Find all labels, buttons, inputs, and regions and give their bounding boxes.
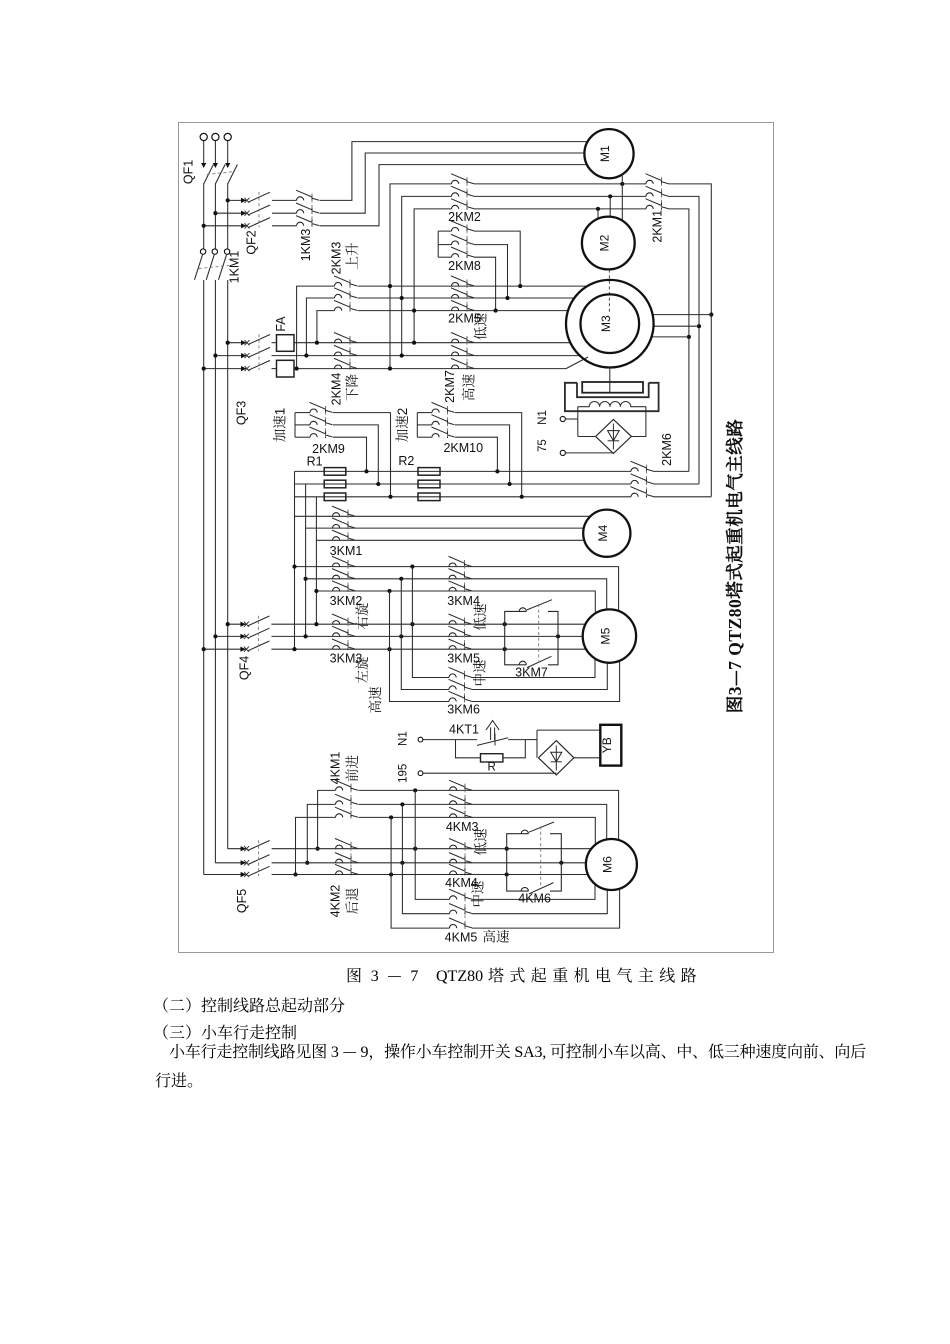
- rectifier bridge (brake): [538, 741, 574, 775]
- svg-text:QF1: QF1: [182, 160, 196, 184]
- wire vertical X3: [391, 817, 449, 928]
- terminal N1 (hoist): [560, 416, 565, 421]
- svg-text:75: 75: [537, 439, 549, 452]
- svg-text:中速: 中速: [467, 880, 487, 908]
- mechanical link M2-M3 (dashed): [608, 270, 610, 312]
- svg-text:2KM8: 2KM8: [448, 259, 481, 273]
- contactor 3KM3: [333, 621, 340, 625]
- rotor outer bracket: [565, 383, 659, 411]
- motor M4: [583, 510, 630, 557]
- wire bus L3 upper: [227, 141, 229, 163]
- wire 2KM8 out3 drop: [474, 257, 496, 310]
- wire 3KM2 row3 to 3KM4 to M5 top: [316, 591, 595, 613]
- contactor 4KM2: [336, 845, 343, 849]
- wire riser to 4KM1 row1: [318, 790, 336, 848]
- wire QF4 row2 through 3KM3/3KM5 to M5: [271, 635, 582, 637]
- wire 2KM10 out3 to R row1: [455, 437, 497, 471]
- svg-text:N1: N1: [397, 731, 409, 746]
- wire rectifier right to YB: [574, 757, 600, 759]
- wire QF5 row1 through 4KM2/4KM4 to M6: [272, 848, 592, 850]
- svg-text:加速1: 加速1: [269, 408, 289, 443]
- time relay contact 4KT1: [477, 738, 508, 746]
- wire 2KM3 input riser row2: [306, 298, 334, 356]
- wire QF5 row2 through 4KM2/4KM4 to M6: [272, 862, 586, 864]
- wire 2KM1 row3 to right riser 1: [669, 209, 689, 472]
- contactor 2KM4: [335, 339, 342, 343]
- wire M3 tap row1: [653, 314, 712, 316]
- wire bus L2 mid: [214, 185, 216, 249]
- rectifier diode symbol: [612, 424, 614, 450]
- wire 4KM1 row1 through 4KM3 to M6 top: [359, 790, 619, 840]
- rectifier bridge (hoist eddy brake): [596, 419, 632, 453]
- wire 2KM8 out1 drop: [474, 231, 520, 286]
- motor M3 outer: [566, 280, 654, 368]
- wire 3KM1 row1 to M4: [295, 515, 591, 517]
- svg-text:M5: M5: [598, 627, 612, 644]
- wire bus L2 bend to QF5 row2: [215, 862, 245, 864]
- terminal 195: [418, 771, 423, 776]
- svg-text:195: 195: [397, 764, 409, 783]
- wire vertical W2: [401, 579, 449, 690]
- svg-text:R: R: [488, 762, 496, 774]
- supply terminal circle L2: [212, 133, 219, 140]
- rotor inner rect: [582, 382, 643, 393]
- svg-text:2KM1: 2KM1: [651, 210, 665, 243]
- contactor 2KM8: [452, 227, 459, 231]
- body text line 1: [153, 993, 345, 1016]
- contactor 2KM8 input bracket: [437, 231, 439, 257]
- wire tap bus L1 to QF2 row3: [204, 225, 246, 227]
- rectifier diode symbol (brake): [555, 746, 557, 771]
- supply terminal circle L1: [200, 133, 207, 140]
- wire 2KM1 row2 to right riser 2: [669, 196, 700, 484]
- contactor 3KM1: [333, 513, 340, 517]
- svg-text:下降: 下降: [341, 374, 361, 401]
- contactor 2KM5: [452, 283, 459, 287]
- wire tap bus L2 to QF3 row2: [215, 355, 246, 357]
- contactor 1KM1: [200, 249, 205, 254]
- wire tap bus L3 to QF3 row1: [228, 342, 246, 344]
- svg-text:R2: R2: [398, 454, 414, 468]
- wire 1KM3 row2 to M1 phase V: [320, 153, 585, 213]
- wire 2KM3 row1 to 2KM5 to M3: [358, 285, 588, 287]
- wire bus L1 mid: [203, 185, 205, 249]
- svg-text:图3—7 QTZ80塔式起重机电气主线路: 图3—7 QTZ80塔式起重机电气主线路: [722, 419, 747, 714]
- wire tap bus L1 to QF3 row3: [204, 368, 246, 370]
- wire QF3 row2 through 2KM4 to 2KM7 to M3: [272, 355, 580, 357]
- figure caption: [346, 963, 419, 986]
- wire tap bus L3 to QF4 row1: [228, 623, 246, 625]
- wire M3 shaft to rotor: [609, 368, 611, 393]
- wire tap bus L1 to QF4 row3: [204, 648, 246, 650]
- wire column B lower (to 2KM4 row2): [401, 298, 403, 356]
- wire bus L2 lower: [214, 280, 216, 863]
- breaker QF1: [201, 163, 206, 168]
- terminal 75: [560, 450, 565, 455]
- wire QF2 to 1KM3 row1: [272, 199, 297, 201]
- svg-text:QF4: QF4: [238, 656, 252, 680]
- motor M6: [586, 839, 637, 890]
- wire QF4 row1 through 3KM3/3KM5 to M5: [271, 623, 585, 625]
- wire 3KM6 out1 loop to M5 bottom: [472, 659, 596, 678]
- breaker QF5: [241, 846, 247, 851]
- wire 2KM6 out2 to riser2: [654, 483, 700, 485]
- breaker QF2: [241, 198, 247, 203]
- svg-text:FA: FA: [274, 316, 288, 332]
- svg-text:左旋: 左旋: [351, 656, 371, 684]
- svg-text:低速: 低速: [470, 828, 490, 856]
- wire 4KT1 out to brake rectifier: [525, 739, 537, 741]
- figure frame: [179, 123, 774, 953]
- wire riser to 4KM1 row3: [296, 817, 336, 874]
- wire bus L1 upper: [203, 141, 205, 163]
- contactor 4KM5: [450, 896, 457, 900]
- wire riser to 4KM1 row2: [307, 804, 335, 862]
- body text line 4: [155, 1068, 203, 1091]
- wire 4KM5 out1 loop to M6 bottom: [472, 884, 595, 899]
- wire 3KM6 out3 loop to M5 bottom: [472, 661, 620, 702]
- svg-text:3KM6: 3KM6: [447, 703, 480, 717]
- wire 2KM3 input riser row3: [317, 311, 335, 343]
- wire 2KM9 out1 to R row3: [333, 413, 391, 497]
- junction riser3 / M3 tap1: [709, 313, 713, 317]
- wire tap bus L3 to QF2 row1: [228, 199, 246, 201]
- contactor 2KM6: [631, 468, 638, 472]
- wire QF2 to 1KM3 row3: [272, 225, 297, 227]
- svg-text:2KM6: 2KM6: [660, 433, 674, 466]
- svg-text:加速2: 加速2: [391, 408, 411, 443]
- contactor 3KM6: [449, 674, 456, 678]
- svg-text:后退: 后退: [341, 888, 361, 915]
- wire 2KM6 out1 to riser1: [654, 470, 689, 472]
- wire 2KM10 out2 to R row2: [455, 425, 510, 484]
- fuse FA element 1: [277, 335, 295, 352]
- wire M2 drop V: [609, 196, 611, 216]
- wire bus L3 bend to QF5 row1: [228, 848, 246, 850]
- wire coil right down to rectifier: [631, 407, 646, 437]
- wire vertical V3: [315, 497, 317, 624]
- wire QF2 to 1KM3 row2: [272, 212, 297, 214]
- motor M2: [582, 217, 635, 270]
- rotor inner U bracket: [577, 383, 649, 397]
- wire QF5 row3 through 4KM2/4KM4 to M6: [272, 874, 588, 876]
- wire 1KM3 row1 to M1 phase U: [320, 142, 587, 201]
- wire bus L2 upper: [214, 141, 216, 163]
- resistor R (brake): [481, 754, 503, 762]
- supply terminal circle L3: [224, 133, 231, 140]
- wire feed 2KM2 row3: [414, 209, 451, 311]
- resistor R2 element c: [418, 493, 440, 501]
- wire column C lower (to 2KM4 row1): [413, 311, 415, 343]
- svg-text:YB: YB: [600, 737, 614, 753]
- wire 2KM6 out3 to riser3: [654, 496, 712, 498]
- wire vertical V2: [305, 484, 307, 636]
- svg-text:低速: 低速: [470, 313, 490, 340]
- wire rotor resistor row1: [295, 470, 632, 472]
- svg-text:2KM7: 2KM7: [443, 370, 457, 403]
- wire left to rectifier corner: [578, 436, 596, 438]
- wire vertical X1 (4KM1 r1 to 4KM5 r1): [415, 790, 449, 899]
- wire 2KM3 row3 to 2KM5 to M3: [358, 310, 569, 312]
- wire rotor resistor row2: [295, 483, 632, 485]
- slip-ring coil: [578, 402, 646, 407]
- contactor 2KM3: [335, 283, 342, 287]
- svg-text:3KM7: 3KM7: [515, 666, 548, 680]
- terminal N1 (brake): [418, 737, 423, 742]
- wire vertical W3: [390, 591, 450, 702]
- svg-text:高速: 高速: [364, 686, 384, 714]
- wire 3KM1 row3 to M4: [316, 539, 584, 541]
- fuse FA element 2: [277, 360, 295, 377]
- wire column A lower (to 2KM4 row3): [389, 286, 391, 369]
- wire vertical X2: [402, 804, 449, 913]
- body text line 2: [153, 1020, 297, 1043]
- wire vertical W1 (3KM2 r1 to 3KM6 r1): [412, 567, 449, 678]
- svg-text:M1: M1: [598, 145, 612, 162]
- wire 3KM6 out2 loop to M5 bottom: [472, 663, 608, 690]
- body text line 3: [169, 1039, 866, 1062]
- svg-text:右旋: 右旋: [351, 602, 371, 630]
- wire M3 lower-left entry slant: [566, 357, 588, 369]
- svg-text:QF2: QF2: [245, 230, 259, 254]
- wire 3KM1 row2 to M4: [306, 527, 584, 529]
- contactor 4KM4: [450, 845, 457, 849]
- wire 2KM9 out2 to R row2: [333, 425, 378, 484]
- junction riser2 / M3 tap2: [697, 324, 701, 328]
- resistor R2 element a: [418, 468, 440, 476]
- contactor 2KM10: [432, 409, 439, 413]
- svg-text:M2: M2: [597, 234, 611, 251]
- svg-text:QF5: QF5: [235, 889, 249, 913]
- svg-text:M3: M3: [599, 315, 613, 332]
- resistor R2 element b: [418, 480, 440, 488]
- svg-text:低速: 低速: [469, 603, 489, 631]
- svg-text:N1: N1: [537, 410, 549, 425]
- wire 3KM2 row2 to 3KM4 to M5 top: [306, 579, 607, 610]
- contactor 3KM5: [449, 621, 456, 625]
- wire 2KM2 row2 to 2KM1: [474, 195, 646, 197]
- wire QF3 row3 through 2KM4 to 2KM7 to M3: [294, 368, 566, 370]
- bypass contactor 3KM7 box: [505, 611, 527, 664]
- contactor 3KM4: [449, 563, 456, 567]
- svg-text:1KM1: 1KM1: [228, 251, 242, 284]
- svg-text:R1: R1: [307, 455, 323, 469]
- contactor 2KM9 input bracket (jiasu1 node): [294, 413, 296, 438]
- wire 2KM1 row1 to right riser 3: [669, 184, 712, 497]
- svg-text:QF3: QF3: [235, 401, 249, 425]
- bypass contactor 4KM6 box: [507, 834, 529, 891]
- contactor 3KM2: [333, 563, 340, 567]
- wire 2KM2 row3 to 2KM1: [474, 208, 646, 210]
- wire M3 tap row3: [652, 336, 689, 338]
- wire QF3 row1 through 2KM4 to 2KM7 to M3: [294, 342, 570, 344]
- wire 4KM1 row3 through 4KM3 to M6 top: [359, 817, 596, 844]
- wire 2KM3 row2 to 2KM5 to M3: [358, 297, 575, 299]
- wire 2KM10 out1 to R row3: [455, 413, 522, 497]
- wire tap bus L2 to QF4 row2: [215, 635, 245, 637]
- wire bus L1 bend to QF5 row3: [204, 874, 246, 876]
- wire 2KM3 input riser row1: [297, 286, 335, 369]
- wire 4KM5 out2 loop to M6 bottom: [472, 890, 607, 914]
- svg-text:4KM5: 4KM5: [445, 931, 478, 945]
- wire 2KM9 out3 to R row1: [333, 437, 367, 471]
- resistor R1 element a: [324, 468, 346, 476]
- contactor 4KM3: [450, 787, 457, 791]
- wire 2KM2 row1 to 2KM1: [474, 183, 646, 185]
- contactor 2KM10 input bracket (jiasu2 node): [416, 413, 418, 438]
- wire 1KM3 row3 to M1 phase W: [320, 165, 587, 226]
- wire M2 drop W: [597, 209, 599, 219]
- brake solenoid YB box: [600, 725, 621, 766]
- wire 4KM1 row2 through 4KM3 to M6 top: [359, 804, 607, 839]
- contactor 1KM3: [297, 197, 304, 201]
- motor M3 inner: [581, 294, 640, 353]
- wire bus L1 lower: [203, 280, 205, 875]
- contactor 2KM2: [452, 180, 459, 184]
- wire rotor resistor row3: [295, 496, 632, 498]
- wire coil left down: [577, 407, 579, 437]
- motor M1: [584, 129, 633, 178]
- wire tap bus L2 to QF2 row2: [215, 212, 246, 214]
- svg-text:4KM6: 4KM6: [518, 892, 551, 906]
- svg-text:M4: M4: [596, 525, 610, 542]
- wire M1 bottom to row and M2 drop U: [621, 174, 623, 220]
- svg-text:M6: M6: [600, 856, 614, 873]
- contactor 2KM1: [646, 180, 653, 184]
- svg-text:2KM10: 2KM10: [443, 441, 483, 455]
- wire QF4 row3 through 3KM3/3KM5 to M5: [271, 648, 586, 650]
- svg-text:4KT1: 4KT1: [449, 723, 479, 737]
- breaker QF3: [241, 340, 247, 345]
- wire feed 2KM2 row2: [402, 196, 452, 298]
- wire 4KM5 out3 loop to M6 bottom: [472, 889, 620, 929]
- svg-text:3KM1: 3KM1: [330, 544, 363, 558]
- svg-text:高速: 高速: [458, 374, 478, 401]
- wire bus L3 lower: [227, 280, 229, 849]
- resistor R1 element b: [324, 480, 346, 488]
- contactor 2KM7: [452, 339, 459, 343]
- resistor R1 element c: [324, 493, 346, 501]
- contactor 4KM1: [336, 787, 343, 791]
- svg-text:上升: 上升: [341, 243, 361, 270]
- svg-text:1KM3: 1KM3: [299, 229, 313, 262]
- svg-text:中速: 中速: [469, 659, 489, 687]
- wire vertical V1 (R rows to QF4 row3): [294, 471, 296, 649]
- contactor 2KM9: [310, 409, 317, 413]
- junction riser1 / M3 tap3: [687, 335, 691, 339]
- wire M3 tap row2: [654, 325, 700, 327]
- wire 2KM8 out2 drop: [474, 245, 508, 298]
- motor M5: [583, 609, 636, 662]
- wire to YB top: [537, 729, 600, 731]
- wire 3KM2 row1 to 3KM4 to M5 top: [295, 567, 619, 611]
- wire bus L3 mid: [227, 185, 229, 249]
- wire feed 2KM2 row1: [390, 184, 452, 286]
- svg-text:前进: 前进: [341, 755, 361, 783]
- breaker QF4: [240, 622, 246, 627]
- wire 4KT1 parallel R branch: [456, 740, 481, 758]
